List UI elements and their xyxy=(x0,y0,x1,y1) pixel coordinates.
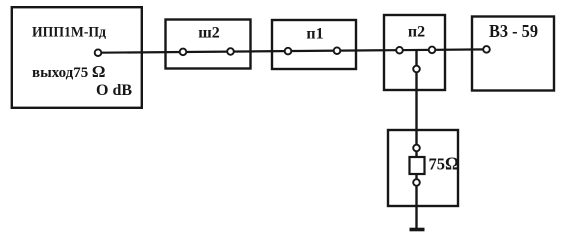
svg-text:О dB: О dB xyxy=(96,82,132,99)
svg-text:75Ω: 75Ω xyxy=(429,154,460,174)
svg-text:В3 - 59: В3 - 59 xyxy=(489,21,538,41)
svg-text:п2: п2 xyxy=(408,24,425,41)
svg-text:п1: п1 xyxy=(306,26,323,43)
svg-text:выход75 Ω: выход75 Ω xyxy=(32,62,106,81)
svg-text:ИПП1М-Пд: ИПП1М-Пд xyxy=(32,25,106,41)
svg-text:ш2: ш2 xyxy=(198,25,220,42)
